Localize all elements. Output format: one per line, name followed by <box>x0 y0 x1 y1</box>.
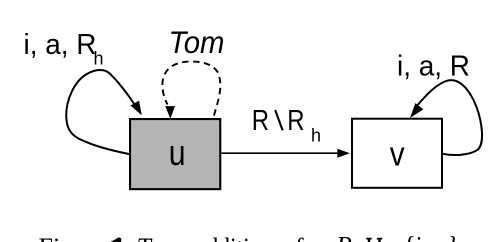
caption multiset-union symbol <box>369 239 380 242</box>
svg-text:R: R <box>252 105 269 137</box>
svg-text:R: R <box>287 105 304 137</box>
svg-text:{i, a}: {i, a} <box>404 232 457 242</box>
svg-text:h: h <box>94 49 104 69</box>
svg-text:i, a, R: i, a, R <box>397 50 470 82</box>
svg-text:v: v <box>390 135 405 173</box>
svg-text:h: h <box>311 126 321 146</box>
node u <box>130 119 220 189</box>
svg-text:Tom: Tom <box>137 233 181 242</box>
self-loop on u (solid) <box>66 70 137 154</box>
self-loop on u (dashed, Tom) <box>162 61 220 117</box>
svg-text:Figure: Figure <box>39 233 107 242</box>
edge u to v (wire) <box>222 152 340 154</box>
self-loop on v (solid) <box>417 80 482 155</box>
self-loop v arrowhead <box>411 104 423 117</box>
caption "Figure 4: Tom additive for R u {i, a}" (cut off at bottom) <box>39 232 458 242</box>
dashed loop arrowhead <box>166 107 174 118</box>
svg-text:u: u <box>169 133 186 173</box>
svg-text:additive: additive <box>196 233 272 242</box>
svg-text:Tom: Tom <box>169 24 225 60</box>
self-loop u arrowhead <box>131 101 141 114</box>
svg-text:i, a, R: i, a, R <box>24 29 97 61</box>
node v <box>352 119 442 188</box>
edge u to v arrowhead <box>337 149 350 158</box>
svg-text:for: for <box>295 233 326 242</box>
caption "4" thick diagonal sliver <box>111 237 122 242</box>
svg-text:R: R <box>335 232 352 242</box>
